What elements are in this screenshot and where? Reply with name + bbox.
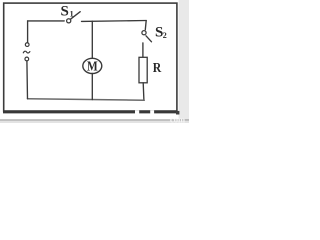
wire S2 to resistor [142,43,144,57]
svg-text:R: R [153,59,162,75]
wire resistor to bottom [142,83,145,100]
frame gap 2 [150,110,154,114]
page background [0,0,189,123]
wire top-right of S1 to corner [82,20,147,23]
wire top-left horizontal [28,20,65,22]
wire source to bottom-left corner [26,61,29,99]
grey band bottom [0,120,189,123]
wire motor branch upper [91,21,93,58]
outer frame [4,3,177,111]
grey margin right [179,0,189,123]
svg-text:com: com [170,115,185,124]
wire bottom [28,99,145,100]
ac source top terminal [25,43,29,47]
outer frame bottom shadow [3,111,178,114]
frame gap 1 [135,110,139,114]
ac source bottom terminal [25,57,29,61]
svg-text:2: 2 [163,31,167,40]
resistor R body [139,57,147,83]
motor M body [83,58,102,73]
wire motor branch lower [91,74,93,100]
switch S2 blade [146,36,152,42]
frame corner blob bottom-right [176,111,179,115]
ac source tilde symbol [23,51,30,53]
grey band bottom edge [0,119,189,121]
wire right vertical to S2 [144,21,147,30]
svg-text:1: 1 [70,10,74,19]
switch S1 blade [71,12,81,20]
svg-text:M: M [87,58,98,73]
switch S2 contact circle [142,31,146,35]
switch S1 contact circle [67,19,71,23]
svg-text:S: S [61,4,69,20]
wire left vertical (to source top terminal) [27,21,29,43]
